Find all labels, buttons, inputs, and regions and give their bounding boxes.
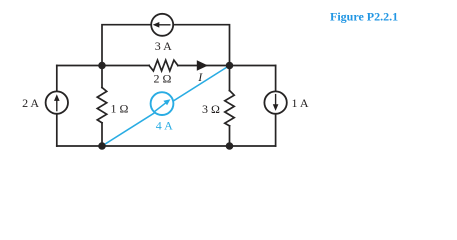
svg-text:3 A: 3 A (155, 39, 172, 53)
svg-text:2 Ω: 2 Ω (153, 72, 171, 86)
svg-text:Figure P2.2.1: Figure P2.2.1 (330, 10, 398, 24)
svg-text:3 Ω: 3 Ω (202, 102, 220, 116)
svg-text:4 A: 4 A (156, 119, 173, 133)
svg-text:1 A: 1 A (291, 96, 308, 110)
svg-text:2 A: 2 A (22, 96, 39, 110)
svg-text:1 Ω: 1 Ω (110, 101, 128, 115)
